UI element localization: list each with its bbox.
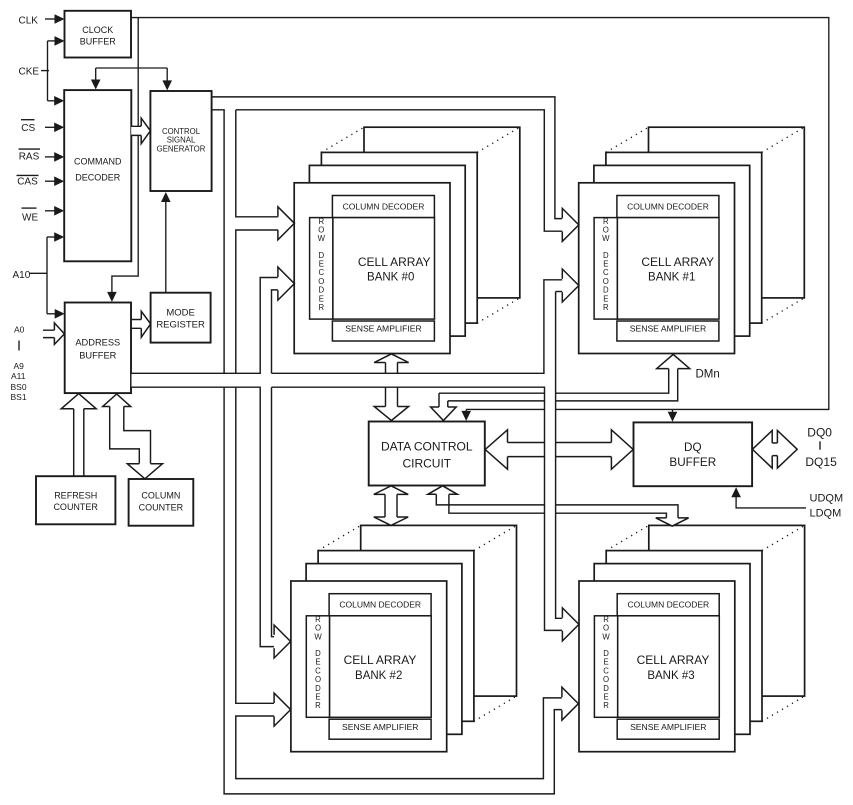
bank #3 perspective dotted lines [606,525,804,721]
CS input wire [21,120,64,135]
data double arrow DCC <-> bank #2 [374,486,408,526]
svg-text:D: D [603,286,609,295]
cell array bank #1 back layer [649,127,805,298]
svg-text:W: W [314,632,322,641]
svg-text:A0: A0 [14,325,25,335]
svg-text:C: C [603,268,609,277]
svg-text:CONTROL: CONTROL [162,127,201,136]
svg-text:CELL ARRAY: CELL ARRAY [344,653,417,667]
svg-text:CLOCK: CLOCK [82,25,113,35]
svg-text:BANK #1: BANK #1 [648,272,695,284]
refresh counter [36,476,115,524]
control arrow into bank #0 [278,207,295,240]
svg-text:A11: A11 [11,371,26,381]
svg-text:COUNTER: COUNTER [139,503,184,513]
mode register [151,293,211,343]
svg-text:O: O [603,624,609,633]
CLK branch arrow into DQ buffer top [668,409,678,421]
svg-text:W: W [602,234,610,243]
svg-text:WE: WE [22,212,38,223]
bank #0 column decoder [332,196,434,218]
bank #0 cell array [333,218,435,320]
svg-text:O: O [603,675,609,684]
svg-text:SENSE AMPLIFIER: SENSE AMPLIFIER [630,722,706,732]
svg-text:BANK #2: BANK #2 [355,670,402,682]
svg-text:E: E [603,294,608,303]
svg-text:E: E [603,658,608,667]
svg-text:COLUMN DECODER: COLUMN DECODER [627,600,709,610]
address buffer / column counter double hollow arrow [103,394,163,479]
svg-text:COLUMN DECODER: COLUMN DECODER [339,600,421,610]
svg-text:E: E [315,658,320,667]
svg-text:BS1: BS1 [11,392,27,402]
svg-text:REFRESH: REFRESH [54,490,97,500]
svg-text:C: C [318,268,324,277]
bank #1 front box [579,183,735,354]
svg-text:E: E [315,693,320,702]
svg-text:DQ0: DQ0 [807,426,832,440]
svg-text:RAS: RAS [19,151,40,162]
svg-text:W: W [318,234,326,243]
svg-text:D: D [603,684,609,693]
svg-text:O: O [315,675,321,684]
hollow path DCC bottom to bank #3 top [428,486,689,526]
svg-text:R: R [318,303,324,312]
bank #2 column decoder [329,594,431,616]
main data bus DCC <-> DQ buffer [485,430,633,469]
bank #0 middle layers [309,152,477,336]
svg-text:R: R [603,701,609,710]
svg-text:COLUMN DECODER: COLUMN DECODER [343,201,425,211]
svg-text:SENSE AMPLIFIER: SENSE AMPLIFIER [345,324,421,334]
svg-text:R: R [603,303,609,312]
svg-text:CAS: CAS [17,177,38,188]
bank #2 sense amplifier [329,719,431,739]
svg-text:CELL ARRAY: CELL ARRAY [358,255,431,269]
CLK input wire [19,14,65,26]
svg-text:R: R [603,615,609,624]
UDQM LDQM input wire [731,487,843,519]
bank #1 middle layers [594,152,762,336]
svg-text:UDQM: UDQM [810,493,844,505]
svg-text:MODE: MODE [166,308,195,319]
CKE input wire [19,36,65,106]
svg-text:E: E [319,294,324,303]
address arrow into bank #2 (upper) [274,625,291,658]
svg-text:D: D [603,649,609,658]
bank #1 column decoder [617,196,719,218]
svg-text:DMn: DMn [696,369,720,381]
bank #1 cell array [617,218,719,320]
bank #3 sense amplifier [617,719,719,739]
svg-text:COLUMN DECODER: COLUMN DECODER [627,201,709,211]
bank #2 perspective dotted lines [318,525,516,721]
control arrow into bank #3 [562,687,579,720]
clock buffer [65,11,132,58]
svg-text:DATA CONTROL: DATA CONTROL [381,439,473,453]
svg-text:CKE: CKE [19,67,40,78]
svg-text:BUFFER: BUFFER [79,351,116,361]
internal clock branch to command decoder and CSG [91,68,172,90]
cell array bank #3 back layer [649,525,805,696]
bank #1 perspective dotted lines [606,127,804,323]
hollow path DCC top to bank #1 bottom (DMn) [431,354,690,420]
svg-text:SENSE AMPLIFIER: SENSE AMPLIFIER [342,722,418,732]
RAS input wire [19,149,65,162]
cell array bank #0 back layer [364,127,520,298]
svg-text:A10: A10 [13,270,31,281]
bank #1 row decoder [594,217,617,319]
svg-text:DQ15: DQ15 [805,455,837,469]
svg-text:SENSE AMPLIFIER: SENSE AMPLIFIER [630,324,706,334]
svg-text:R: R [318,217,324,226]
data double arrow bank #0 <-> DCC [374,354,408,421]
svg-text:E: E [603,260,608,269]
svg-text:W: W [602,632,610,641]
bank #2 cell array [330,616,432,718]
svg-text:COUNTER: COUNTER [53,502,98,512]
data control circuit [369,422,485,486]
svg-text:O: O [318,226,324,235]
svg-text:BUFFER: BUFFER [669,456,716,469]
svg-text:CIRCUIT: CIRCUIT [402,457,451,471]
svg-text:C: C [315,666,321,675]
svg-text:E: E [319,260,324,269]
svg-text:R: R [315,615,321,624]
address buffer [65,303,131,394]
svg-text:ADDRESS: ADDRESS [75,337,120,347]
command decoder [64,90,131,261]
svg-text:D: D [318,286,324,295]
svg-text:D: D [318,251,324,260]
cell array bank #2 back layer [361,525,517,696]
svg-text:GENERATOR: GENERATOR [157,145,206,154]
svg-text:O: O [315,624,321,633]
command decoder to CSG hollow arrow [131,118,150,144]
svg-text:BUFFER: BUFFER [80,37,117,47]
address input labels A0 - A9 A11 BS0 BS1 [11,325,27,403]
bank #3 row decoder [594,615,617,717]
svg-text:CELL ARRAY: CELL ARRAY [641,255,714,269]
bank #3 cell array [618,616,720,718]
svg-text:COLUMN: COLUMN [141,491,180,501]
svg-text:A9: A9 [14,361,25,371]
A10 input wire [13,232,65,318]
bank #0 perspective dotted lines [321,127,519,323]
control signal generator [150,91,211,191]
svg-text:DQ: DQ [684,441,702,454]
address arrow into bank #3 (upper) [562,608,579,641]
control arrow into bank #1 [562,208,579,241]
address arrow into bank #0 (lower) [278,267,295,300]
address arrow into bank #1 (lower) [562,269,579,302]
svg-text:O: O [318,277,324,286]
bank #3 front box [579,581,735,752]
control arrow into bank #2 [274,693,291,726]
bank #0 sense amplifier [332,321,434,341]
A0-A9 address hollow arrow into address buffer [43,323,64,345]
svg-text:REGISTER: REGISTER [156,320,205,331]
svg-text:LDQM: LDQM [810,508,842,520]
svg-text:O: O [603,226,609,235]
bank #0 row decoder [310,217,333,319]
bank #0 front box [294,183,450,354]
WE input wire [22,206,65,223]
svg-text:D: D [315,684,321,693]
mode register to CSG wire [161,192,171,293]
refresh counter to address buffer hollow arrow [61,394,96,477]
svg-text:CLK: CLK [19,15,39,26]
svg-text:C: C [603,666,609,675]
svg-text:E: E [603,693,608,702]
internal clock vertical to address buffer [107,18,138,302]
bank #3 column decoder [617,594,719,616]
bank #2 middle layers [306,551,474,735]
bank #3 middle layers [594,551,762,735]
data bus DQ buffer <-> DQ0-DQ15 pins [752,431,797,469]
bank #1 sense amplifier [617,321,719,341]
address buffer to mode register hollow arrow [131,311,151,337]
svg-text:CS: CS [21,123,35,134]
DQ0 - DQ15 labels [805,426,837,470]
CLK distribution wire to right side and down to DCC [131,18,829,421]
control bus from CSG right edge (hollow) [212,97,563,794]
svg-text:COMMAND: COMMAND [74,157,122,167]
svg-text:BANK #0: BANK #0 [367,272,414,284]
svg-text:R: R [603,217,609,226]
bank #2 row decoder [306,615,329,717]
svg-text:D: D [315,649,321,658]
svg-text:BANK #3: BANK #3 [647,670,694,682]
column counter [129,479,194,526]
svg-text:DECODER: DECODER [75,173,121,183]
svg-text:O: O [603,277,609,286]
svg-text:R: R [315,701,321,710]
svg-text:D: D [603,251,609,260]
bank #2 front box [291,581,447,752]
dq buffer [634,422,753,486]
svg-text:CELL ARRAY: CELL ARRAY [637,653,710,667]
svg-text:SIGNAL: SIGNAL [167,136,196,145]
row address bus from address buffer (hollow, covers crossings) [131,278,562,647]
svg-text:BS0: BS0 [11,382,27,392]
CAS input wire [17,175,65,187]
